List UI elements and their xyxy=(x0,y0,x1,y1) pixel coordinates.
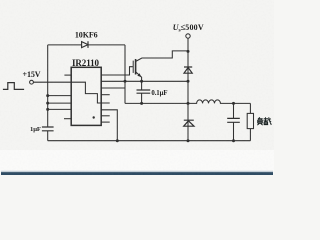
wire left pin 3 from rail xyxy=(48,102,71,104)
node dot inside IC xyxy=(93,116,95,118)
wire bootstrap drop vertical xyxy=(124,45,126,104)
wire diode to corner xyxy=(88,44,125,46)
resistor RL load box xyxy=(249,103,251,140)
node VS rail junction xyxy=(187,80,190,83)
wire HO pin to gate xyxy=(101,67,133,75)
paper grain overlay xyxy=(0,0,1,1)
node rail junction C xyxy=(46,108,49,111)
emitter arrowhead xyxy=(137,73,141,77)
lower page whitening xyxy=(0,150,274,175)
diode D1 10KF6 (bootstrap) xyxy=(82,41,88,48)
node COM ground junction xyxy=(116,139,119,142)
blue separator line xyxy=(1,172,273,175)
wire left pin stub top xyxy=(64,74,71,76)
wire right HV rail xyxy=(187,38,189,141)
capacitor C2 0.1uF bootstrap xyxy=(141,81,143,103)
diode D2 upper freewheel xyxy=(184,67,192,73)
load label (fu) xyxy=(257,117,262,125)
+15V terminal circle xyxy=(30,80,34,84)
node LC rail junction xyxy=(187,102,190,105)
wire emitter to VS node xyxy=(136,72,142,82)
wire collector to top rail with jog xyxy=(136,51,189,62)
Us terminal circle xyxy=(186,34,190,38)
wire right pin stub 1 xyxy=(101,94,110,96)
wire VS line upper xyxy=(101,80,188,82)
wire C1 bottom to ground rail xyxy=(47,131,49,141)
wire +15V to IC pin (continues inside IC as stepped line to right pin stub) xyxy=(33,82,109,103)
capacitor C3 filter xyxy=(233,103,235,140)
diode D3 lower freewheel xyxy=(184,120,194,126)
wire COM pin to ground xyxy=(101,110,118,141)
wire left pin 4 from rail xyxy=(48,108,71,110)
capacitor C1 1uF plates xyxy=(42,127,54,131)
wire top line to bootstrap diode xyxy=(48,44,82,46)
node filter cap ground junction xyxy=(232,139,235,142)
wire right pin stub 2 xyxy=(101,115,110,117)
inductor L1 xyxy=(188,100,250,104)
node collector junction xyxy=(187,50,190,53)
wire left supply rail vertical xyxy=(47,45,49,127)
node filter cap junction xyxy=(232,102,235,105)
wire right pin stub 3 xyxy=(101,121,110,123)
wire left pin stub bottom xyxy=(64,118,71,120)
transistor Q1 IGBT body bar xyxy=(135,59,137,75)
IC U1 IR2110 box xyxy=(71,67,101,125)
node rail junction A xyxy=(46,94,49,97)
transistor Q1 IGBT gate bar xyxy=(132,61,134,73)
load label (zai) xyxy=(263,117,271,125)
node VS diode junction xyxy=(124,80,127,83)
blue separator halo xyxy=(1,170,273,172)
wire VB pin to bootstrap node xyxy=(101,87,125,89)
node VS emitter junction xyxy=(140,80,143,83)
input pulse waveform xyxy=(3,83,24,90)
wire left pin 2 from rail xyxy=(48,95,71,97)
wire ground rail bottom xyxy=(48,140,251,142)
wire VS line lower xyxy=(125,102,188,104)
node rail junction B xyxy=(46,102,49,105)
node rail ground junction xyxy=(187,139,190,142)
node lower VS cap junction xyxy=(140,102,143,105)
